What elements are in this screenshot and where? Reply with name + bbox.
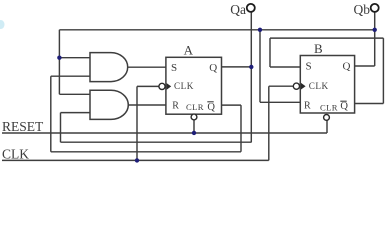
- svg-text:R: R: [172, 101, 179, 112]
- svg-text:Q: Q: [207, 102, 215, 113]
- svg-text:CLR: CLR: [320, 103, 338, 113]
- svg-text:CLR: CLR: [186, 102, 204, 112]
- svg-text:S: S: [306, 61, 312, 73]
- svg-text:Qa: Qa: [230, 2, 246, 17]
- svg-text:CLK: CLK: [309, 81, 329, 91]
- svg-text:A: A: [184, 42, 194, 57]
- svg-text:CLK: CLK: [174, 81, 194, 91]
- svg-text:S: S: [171, 62, 177, 74]
- svg-text:CLK: CLK: [2, 147, 29, 162]
- svg-text:Q: Q: [209, 62, 217, 74]
- svg-text:Q: Q: [343, 61, 351, 73]
- svg-text:R: R: [304, 100, 311, 111]
- svg-text:Q: Q: [340, 101, 348, 112]
- svg-text:RESET: RESET: [2, 119, 44, 134]
- svg-text:Qb: Qb: [354, 2, 371, 17]
- svg-text:B: B: [314, 41, 323, 56]
